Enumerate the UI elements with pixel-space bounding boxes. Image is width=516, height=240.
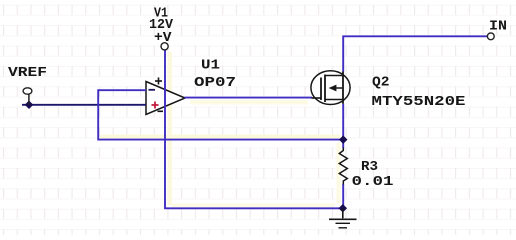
svg-text:U1: U1 — [201, 58, 220, 74]
svg-text:+V: +V — [154, 30, 172, 46]
svg-text:Q2: Q2 — [372, 74, 390, 90]
op-amp V+ pin plus marking — [155, 78, 162, 85]
wire +V supply down through op-amp to bottom rail — [165, 50, 343, 208]
terminal +V — [161, 43, 168, 50]
MOSFET Q2 body — [311, 71, 350, 105]
terminal VREF — [23, 88, 32, 105]
op-amp non-inverting input plus marking (red) — [152, 102, 159, 109]
wire R3 bottom to ground rail — [342, 184, 344, 208]
wire feedback: - input to R3 top — [98, 90, 343, 139]
junction VREF node — [25, 101, 33, 109]
ground — [329, 208, 357, 228]
svg-text:R3: R3 — [361, 159, 378, 175]
terminal IN — [487, 33, 494, 40]
op-amp V- pin minus marking — [158, 110, 164, 112]
svg-text:OP07: OP07 — [194, 75, 236, 91]
resistor R3 — [339, 148, 347, 185]
wire VREF to + input — [22, 104, 146, 106]
svg-text:VREF: VREF — [8, 65, 47, 81]
ghost highlight bands — [100, 52, 341, 207]
wire op-amp output to Q2 gate — [185, 97, 313, 99]
wire Q2 source to R3 — [342, 104, 344, 148]
svg-text:IN: IN — [489, 19, 507, 35]
wire Q2 drain to IN — [343, 36, 487, 71]
junction R3 bottom / ground — [339, 204, 347, 212]
svg-text:0.01: 0.01 — [352, 174, 394, 190]
op-amp inverting input minus marking — [149, 89, 156, 91]
junction Q2 source / R3 top — [339, 135, 347, 143]
svg-text:MTY55N20E: MTY55N20E — [372, 94, 466, 110]
op-amp U1 body — [146, 82, 185, 115]
